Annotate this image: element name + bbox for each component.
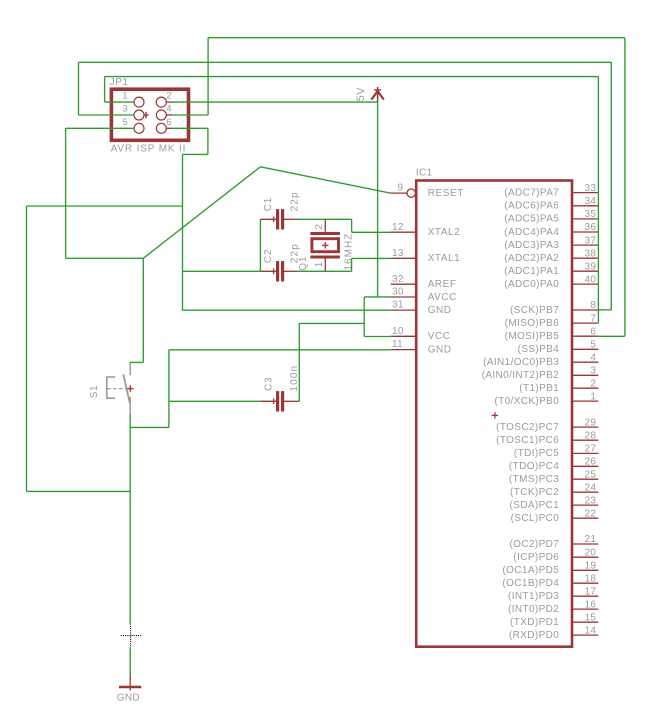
capacitor C2 plates [276,261,279,281]
svg-text:(AIN0/INT2)PB2: (AIN0/INT2)PB2 [482,370,560,381]
connector JP1 pin 3 circle [134,110,144,120]
svg-text:4: 4 [590,352,596,363]
wire net GND to IC GND pin31 [183,309,391,311]
svg-text:(AIN1/OC0)PB3: (AIN1/OC0)PB3 [483,357,559,368]
svg-text:1: 1 [314,261,325,267]
IC pin 36 stub [573,231,598,233]
wire net SCK top horizontal y=62.3 [79,61,612,63]
svg-text:12: 12 [392,222,404,233]
svg-text:16: 16 [584,599,596,610]
svg-text:9: 9 [398,183,404,194]
capacitor C2 left pin [260,270,276,272]
wire net GND to IC GND pin11 [169,349,391,351]
crystal Q1 bottom pin 1 [324,258,326,271]
wire net XTAL2 to IC pin12 [352,231,391,233]
IC IC1 origin cross [492,414,498,416]
wire net SCK right vertical x=611.3 [610,62,612,310]
svg-text:5V: 5V [355,87,367,102]
svg-text:2: 2 [166,91,172,102]
svg-text:(ADC3)PA3: (ADC3)PA3 [504,240,559,251]
svg-text:31: 31 [392,300,404,311]
svg-text:(SCL)PC0: (SCL)PC0 [511,513,560,524]
svg-text:(SDA)PC1: (SDA)PC1 [509,500,559,511]
wire net GND vertical x=260.4 C1-C2 [259,219,261,271]
IC pin 7 stub [573,322,598,324]
switch S1 bottom pin [129,397,131,413]
svg-text:(TOSC1)PC6: (TOSC1)PC6 [496,435,559,446]
svg-text:5: 5 [122,117,128,128]
svg-text:(SS)PB4: (SS)PB4 [518,344,560,355]
svg-text:36: 36 [584,222,596,233]
svg-text:GND: GND [428,344,452,355]
wire net MOSI right vertical x=624.9 [624,38,626,337]
svg-text:(MISO)PB6: (MISO)PB6 [505,318,560,329]
crystal Q1 body rectangle [312,239,339,252]
capacitor C1 plates [276,209,279,229]
connector JP1 right pin stub [166,101,173,103]
connector JP1 right pin stub [166,127,173,129]
wire net GND S1 to pin11 horizontal y=427.4 [130,426,169,428]
wire net MISO to JP1 pin1 [105,101,135,103]
IC pin 9 RESET stub with inversion bubble [390,192,407,194]
wire net MOSI vertical x=208.1 [207,38,209,115]
svg-text:10: 10 [392,326,404,337]
wire net 5V to AVCC pin30 [364,296,391,298]
IC pin 27 stub [573,452,598,454]
svg-text:15: 15 [584,612,596,623]
IC pin 1 stub [573,400,598,402]
wire net RESET jog to S1 top [130,361,144,363]
wire net GND below frame cross to GND symbol [129,647,131,675]
connector JP1 right pin stub [166,114,173,116]
svg-text:26: 26 [584,457,596,468]
svg-text:(ADC1)PA1: (ADC1)PA1 [504,266,559,277]
svg-text:8: 8 [590,300,596,311]
svg-text:13: 13 [392,248,404,259]
wire net GND branch horizontal y=206.0 [27,205,183,207]
wire net MOSI top horizontal y=37.7 [208,37,625,39]
wire net GND left vertical x=26.5 [26,206,28,491]
svg-text:23: 23 [584,495,596,506]
IC pin 38 stub [573,257,598,259]
wire net SCK to JP1 pin3 [79,114,135,116]
svg-text:1: 1 [590,391,596,402]
svg-text:(TMS)PC3: (TMS)PC3 [509,474,559,485]
wire net MOSI from JP1 pin4 [172,114,208,116]
wire net SCK vertical x=78.5 [78,62,80,115]
svg-text:35: 35 [584,209,596,220]
svg-text:19: 19 [584,561,596,572]
svg-text:20: 20 [584,547,596,558]
svg-text:6: 6 [166,117,172,128]
svg-text:IC1: IC1 [416,168,433,179]
IC pin 29 stub [573,426,598,428]
IC pin 30 stub [391,296,415,298]
wire net 5V vertical x=377.6 [377,102,379,297]
IC U1 body outline [416,181,572,647]
IC pin 11 stub [391,349,415,351]
svg-text:39: 39 [584,261,596,272]
wire net GND to C2 horizontal y=271.3 [183,270,261,272]
svg-text:Q1: Q1 [298,255,309,270]
IC pin 5 stub [573,348,598,350]
svg-text:(TDO)PC4: (TDO)PC4 [509,461,559,472]
connector JP1 pin3 stub with cross [144,114,149,116]
wire net 5V vertical x=364.2 [363,297,365,337]
wire net XTAL1 horizontal y=271.3 [298,270,352,272]
svg-text:24: 24 [584,482,596,493]
wire net RESET horizontal y=258.3 [66,257,144,259]
switch S1 lever [123,374,130,404]
IC pin 32 stub [391,283,415,285]
svg-text:(RXD)PD0: (RXD)PD0 [509,630,559,641]
crystal Q1 origin cross [322,244,328,246]
svg-text:C2: C2 [263,249,274,263]
svg-text:21: 21 [584,534,596,545]
wire net RESET diagonal up [143,167,260,258]
wire net GND vertical x=168.9 [168,350,170,428]
svg-text:29: 29 [584,417,596,428]
wire net GND horizontal y=154.4 [183,153,208,155]
IC pin 10 stub [391,335,415,337]
crystal Q1 bottom plate [310,256,340,259]
IC pin 26 stub [573,465,598,467]
IC pin 18 stub [573,582,598,584]
svg-text:1: 1 [122,91,128,102]
svg-text:40: 40 [584,274,596,285]
svg-text:(ADC0)PA0: (ADC0)PA0 [504,279,559,290]
wire net 5V to VCC pin10 [364,336,391,338]
wire net XTAL1 to IC pin13 [352,257,391,259]
IC pin 24 stub [573,491,598,493]
wire net XTAL1 vertical x=351.6 [351,258,353,271]
IC pin 28 stub [573,439,598,441]
connector JP1 pin 2 circle [156,97,166,107]
IC pin 37 stub [573,244,598,246]
svg-text:AREF: AREF [428,279,457,290]
IC pin 23 stub [573,504,598,506]
switch S1 actuator bracket [106,377,115,398]
svg-text:(TDI)PC5: (TDI)PC5 [514,448,559,459]
wire net XTAL2 vertical x=351.6 [351,219,353,232]
svg-text:2: 2 [590,378,596,389]
svg-text:(ADC2)PA2: (ADC2)PA2 [504,253,559,264]
wire net XTAL2 horizontal y=219.3 [298,218,352,220]
svg-text:S1: S1 [89,385,100,398]
svg-text:32: 32 [392,274,404,285]
switch S1 top pin [129,363,131,375]
svg-text:JP1: JP1 [110,77,129,88]
IC pin 25 stub [573,478,598,480]
svg-text:AVCC: AVCC [428,292,457,303]
svg-text:22p: 22p [289,191,300,211]
crystal Q1 top plate [310,232,340,235]
svg-text:(INT1)PD3: (INT1)PD3 [508,591,559,602]
svg-text:(OC1B)PD4: (OC1B)PD4 [502,578,559,589]
svg-text:C1: C1 [263,197,274,211]
capacitor C3 left pin [260,400,276,402]
wire net 5V from JP1 pin2 [172,101,377,103]
IC pin 40 stub [573,283,598,285]
IC pin 12 stub [391,231,415,233]
svg-text:2: 2 [314,224,325,230]
svg-text:(TCK)PC2: (TCK)PC2 [510,487,559,498]
svg-text:(OC2)PD7: (OC2)PD7 [509,539,559,550]
capacitor C3 right pin [284,400,299,402]
IC pin 20 stub [573,556,598,558]
svg-text:(ADC7)PA7: (ADC7)PA7 [504,187,559,198]
svg-text:17: 17 [584,586,596,597]
capacitor C1 right pin [284,218,299,220]
switch S1 actuator dashed link [108,388,128,390]
IC pin 22 stub [573,517,598,519]
capacitor C2 right pin [284,270,299,272]
svg-text:34: 34 [584,196,596,207]
svg-text:(ADC4)PA4: (ADC4)PA4 [504,227,559,238]
svg-text:GND: GND [117,692,140,703]
svg-text:100n: 100n [289,365,300,392]
svg-text:5: 5 [590,340,596,351]
svg-text:37: 37 [584,235,596,246]
wire net 5V branch vertical x=299.3 to C3 [298,323,300,401]
svg-text:RESET: RESET [428,188,464,199]
svg-text:XTAL1: XTAL1 [428,253,461,264]
supply +5V symbol [371,87,383,102]
wire net MISO top horizontal y=76.6 [105,76,599,78]
svg-text:(SCK)PB7: (SCK)PB7 [510,305,559,316]
wire net GND to C3 horizontal y=401.3 [169,400,261,402]
IC pin 19 stub [573,569,598,571]
capacitor C3 plates [276,391,279,411]
svg-text:11: 11 [392,339,403,350]
IC pin 34 stub [573,205,598,207]
ground symbol GND [129,675,131,691]
svg-text:(ADC6)PA6: (ADC6)PA6 [504,201,559,212]
wire net GND from JP1 pin6 [172,127,208,129]
svg-text:(T0/XCK)PB0: (T0/XCK)PB0 [494,396,559,407]
svg-text:33: 33 [584,183,596,194]
svg-text:(TOSC2)PC7: (TOSC2)PC7 [496,422,559,433]
wire net RESET vertical x=143.3 to S1 [142,258,144,362]
IC pin 8 stub [573,309,598,311]
wire net SCK jog to IC pin8 [598,309,611,311]
svg-text:(T1)PB1: (T1)PB1 [519,383,559,394]
wire net GND vertical x=207.9 [207,128,209,154]
IC pin 21 stub [573,543,598,545]
capacitor C1 left pin [260,218,276,220]
svg-text:(MOSI)PB5: (MOSI)PB5 [505,331,560,342]
svg-text:(ICP)PD6: (ICP)PD6 [513,552,559,563]
svg-text:C3: C3 [263,377,274,391]
wire net RESET diagonal to IC pin9 [260,167,390,193]
svg-text:VCC: VCC [428,331,451,342]
connector JP1 pin 4 circle [156,110,166,120]
wire net MISO right vertical x=598.4 [597,77,599,324]
IC pin 4 stub [573,361,598,363]
wire net GND vertical below S1 [129,413,131,625]
IC pin 17 stub [573,595,598,597]
wire net GND bottom horizontal y=491.4 [27,490,131,492]
svg-text:27: 27 [584,444,596,455]
IC pin 3 stub [573,374,598,376]
IC pin 6 stub [573,335,598,337]
IC pin 13 stub [391,257,415,259]
svg-text:AVR ISP MK II: AVR ISP MK II [111,143,187,154]
svg-text:25: 25 [584,469,596,480]
IC pin 31 stub [391,309,415,311]
IC pin 14 stub [573,634,598,636]
svg-text:6: 6 [590,326,596,337]
svg-text:22: 22 [584,508,596,519]
svg-text:GND: GND [428,305,452,316]
wire net RESET vertical x=65.6 [65,128,67,258]
crystal Q1 top pin 2 [324,219,326,232]
wire net MISO vertical at JP1 pin1 [104,77,106,103]
wire net MOSI jog to IC pin6 [598,335,625,337]
IC pin 16 stub [573,608,598,610]
svg-text:3: 3 [590,366,596,377]
connector JP1 pin 5 circle [134,123,144,133]
switch S1 contact cross [127,388,134,390]
connector JP1 body [111,89,188,140]
svg-text:(ADC5)PA5: (ADC5)PA5 [504,214,559,225]
wire net GND vertical x=182.5 [182,154,184,310]
sheet origin dotted cross [130,626,132,647]
svg-text:4: 4 [166,104,172,115]
wire net 5V branch to C3 horizontal y=323.4 [299,322,364,324]
svg-text:30: 30 [392,287,404,298]
svg-text:XTAL2: XTAL2 [428,227,461,238]
svg-text:28: 28 [584,430,596,441]
wire net RESET from JP1 pin5 [66,127,135,129]
svg-text:14: 14 [584,625,596,636]
IC pin 2 stub [573,387,598,389]
svg-text:38: 38 [584,248,596,259]
IC pin 35 stub [573,218,598,220]
IC pin 33 stub [573,192,598,194]
svg-text:(OC1A)PD5: (OC1A)PD5 [502,565,559,576]
IC pin 39 stub [573,270,598,272]
IC pin 15 stub [573,621,598,623]
svg-text:(INT0)PD2: (INT0)PD2 [508,604,559,615]
svg-text:16MHZ: 16MHZ [343,233,354,271]
connector JP1 pin 1 circle [134,97,144,107]
svg-text:7: 7 [590,313,596,324]
svg-text:3: 3 [122,104,128,115]
svg-text:18: 18 [584,573,596,584]
connector JP1 pin 6 circle [156,123,166,133]
svg-text:(TXD)PD1: (TXD)PD1 [510,617,559,628]
